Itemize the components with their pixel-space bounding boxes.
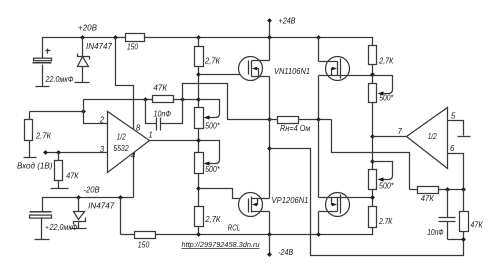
svg-text:VN1106N1: VN1106N1: [274, 67, 310, 76]
junction input/feedback node: [81, 109, 86, 114]
junction -20V rail at zener: [76, 195, 81, 200]
svg-text:-20В: -20В: [83, 186, 99, 195]
junction VP2 source / right chain: [370, 195, 375, 200]
svg-text:Вход (1В): Вход (1В): [17, 161, 53, 170]
junction top rail at pin8 branch: [113, 35, 118, 40]
wire pin3: [46, 152, 108, 154]
svg-text:1/2: 1/2: [428, 132, 438, 141]
wire input node to pin2 branch: [30, 111, 84, 113]
capacitor 10pF feedback: [146, 100, 157, 124]
wire feedback overpass to output node: [183, 84, 270, 120]
wire bottom -24V rail: [121, 228, 373, 235]
junction node branch right: [267, 146, 272, 151]
junction M2 source / right chain: [370, 72, 375, 77]
svg-text:+24В: +24В: [279, 17, 296, 26]
wire VP2 drain to -24V rail: [318, 212, 320, 235]
junction op-amp2 output pin7: [370, 134, 375, 139]
trimmer 500 lower-left: [195, 153, 204, 174]
svg-text:2,7К: 2,7К: [204, 215, 220, 224]
wire op-amp1 output: [150, 141, 220, 164]
wire output node to op-amp2 input network: [332, 120, 410, 190]
svg-text:10пФ: 10пФ: [427, 228, 443, 237]
junction feedback/chain node: [196, 97, 201, 102]
right bias chain vertical: [372, 46, 374, 228]
wire top +20V/+24V rail: [43, 38, 373, 59]
svg-text:IN4747: IN4747: [86, 42, 113, 51]
svg-text:2.7К: 2.7К: [378, 217, 392, 226]
svg-text:+: +: [45, 225, 49, 232]
junction 47K/10pF node: [445, 187, 450, 192]
junction op-amp1 output / chain: [196, 138, 201, 143]
transistor Q4 VP1206N1 (right): [326, 193, 350, 217]
svg-text:7: 7: [398, 127, 403, 136]
wire VP1 gate: [199, 189, 249, 199]
resistor 47K input ground leg: [58, 153, 60, 161]
resistor 2.7K lower chain: [195, 207, 204, 227]
wire M1 drain to rail: [269, 38, 271, 61]
wire M1 source to output node: [269, 77, 271, 120]
wire op-amp2 pin5 to common: [448, 121, 464, 136]
junction bottom rail at VP1 drain: [267, 232, 272, 237]
zener diode D1 IN4747: [82, 38, 84, 57]
junction top rail at 2.7K chain: [196, 35, 201, 40]
op-amp U2 1/2 5532 triangle: [407, 108, 448, 169]
svg-text:2,7К: 2,7К: [378, 57, 393, 66]
svg-text:47К: 47К: [154, 83, 168, 92]
center bias chain vertical: [198, 38, 200, 235]
node pin3 wire start: [43, 150, 48, 155]
node +24V terminal: [269, 21, 271, 38]
wire -20V rail: [43, 198, 134, 213]
resistor 2.7K upper chain: [195, 47, 204, 67]
zener diode D2 IN4747 lower: [78, 198, 80, 212]
resistor 2.7K right lower: [369, 207, 377, 228]
junction top rail at zener: [80, 35, 85, 40]
svg-text:2,7К: 2,7К: [35, 132, 51, 141]
capacitor 10pF right: [447, 190, 449, 218]
svg-text:500*: 500*: [205, 165, 220, 174]
junction pin3 at 47K: [56, 150, 61, 155]
svg-text:IN4747: IN4747: [88, 202, 115, 211]
junction -20V rail drop: [118, 195, 123, 200]
svg-text:2,7К: 2,7К: [204, 57, 220, 66]
svg-text:500*: 500*: [379, 94, 394, 103]
trimmer wiper arrow upper-left 500: [199, 100, 220, 118]
resistor 150 bottom: [135, 232, 156, 239]
junction top rail at M1 drain / +24V: [267, 35, 272, 40]
svg-text:500*: 500*: [205, 122, 220, 131]
svg-text:2: 2: [99, 115, 105, 124]
svg-text:22,0мкФ: 22,0мкФ: [49, 223, 78, 232]
junction feedback left of 47K: [143, 97, 148, 102]
junction shunt bottom node: [461, 237, 466, 242]
svg-text:10пФ: 10пФ: [154, 110, 172, 119]
trimmer 500 right upper: [369, 84, 377, 103]
wire feedback y=99: [84, 99, 199, 101]
junction feedback right of 47K: [180, 97, 185, 102]
junction pin6 node: [461, 187, 466, 192]
capacitor C1 22.0uF: [34, 58, 52, 61]
svg-text:47К: 47К: [421, 194, 434, 203]
wire M2 gate to output node: [318, 76, 320, 120]
svg-text:1/2: 1/2: [117, 132, 127, 141]
wire pin7 to op-amp2: [373, 136, 407, 138]
svg-text:1: 1: [148, 130, 152, 139]
svg-text:22.0мкФ: 22.0мкФ: [45, 75, 74, 84]
resistor Rn=4 Ohm load: [270, 119, 332, 121]
svg-text:4: 4: [131, 152, 136, 161]
svg-text:http://299792458.3dn.ru: http://299792458.3dn.ru: [182, 242, 260, 249]
trimmer wiper arrow right upper: [373, 76, 393, 94]
svg-text:VP1206N1: VP1206N1: [272, 196, 309, 205]
junction M1 gate node: [196, 72, 201, 77]
svg-text:47К: 47К: [66, 172, 79, 181]
input terminal bar: [24, 157, 37, 159]
svg-text:5532: 5532: [113, 144, 129, 153]
svg-text:5: 5: [451, 111, 456, 120]
wire M1 gate: [199, 74, 250, 76]
svg-text:3: 3: [100, 145, 105, 154]
wire pin2 vertical: [84, 100, 108, 124]
svg-text:6: 6: [450, 144, 455, 153]
op-amp U1 5532 triangle: [108, 112, 150, 173]
svg-text:150: 150: [127, 43, 139, 52]
junction bottom rail at chain: [196, 232, 201, 237]
junction top rail at M2 drain: [316, 35, 321, 40]
wire VP1 drain to -24V rail: [269, 212, 271, 235]
trimmer 500 right lower: [369, 170, 377, 190]
svg-text:150: 150: [138, 240, 150, 249]
svg-text:500*: 500*: [379, 182, 394, 191]
svg-text:+20В: +20В: [78, 24, 97, 33]
svg-text:Rн=4 Ом: Rн=4 Ом: [280, 124, 311, 133]
junction output node at M2 gate: [316, 117, 321, 122]
wire M1 source chain down to VP1: [269, 120, 271, 199]
resistor 47K right vertical: [463, 190, 465, 212]
junction bottom rail at VP2 drain: [316, 232, 321, 237]
trimmer wiper arrow lower-left 500: [204, 161, 210, 165]
resistor 2.7K input: [29, 112, 31, 120]
node -24V terminal: [269, 235, 271, 255]
wire -20V rail to bottom wire: [120, 198, 122, 235]
svg-text:8: 8: [136, 123, 141, 132]
junction right chain wiper2: [370, 159, 375, 164]
resistor 150 top: [126, 34, 145, 42]
wire M2 drain to rail: [318, 38, 320, 62]
wire op-amp1 pin8 supply path: [116, 38, 134, 130]
junction output node at M1 source: [267, 117, 272, 122]
transistor Q2 VN1106N1 (right): [326, 57, 350, 81]
wire op-amp2 pin6: [448, 154, 464, 190]
wire branch to feedback shunt return: [270, 149, 464, 256]
resistor 2.7K right upper: [369, 46, 377, 65]
svg-text:-24В: -24В: [278, 248, 293, 257]
wire node vertical M2 gate to VP2: [318, 120, 320, 198]
trimmer wiper arrow right lower: [373, 162, 393, 180]
svg-text:RCL: RCL: [228, 223, 240, 232]
trimmer 500 upper-left: [195, 108, 204, 129]
resistor 47K feedback: [153, 96, 174, 103]
wire op-amp1 pin4 to -20V: [133, 153, 135, 198]
junction VP1 gate node: [196, 186, 201, 191]
resistor 47K op-amp2 input: [410, 189, 464, 191]
capacitor C2 22.0uF lower: [30, 211, 52, 213]
transistor Q3 VP1206N1: [239, 193, 263, 217]
svg-text:47К: 47К: [470, 221, 483, 230]
transistor Q1 VN1106N1: [239, 57, 263, 81]
